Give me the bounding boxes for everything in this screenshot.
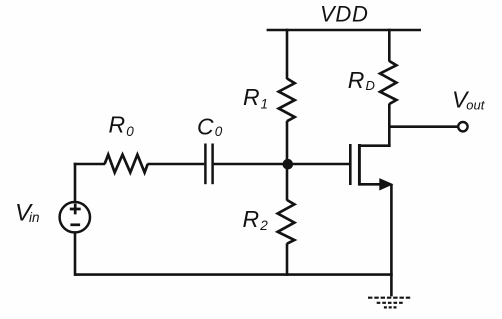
wire bottom rail bbox=[75, 273, 393, 276]
label Vin bbox=[15, 199, 40, 226]
wire source down to ground bbox=[390, 184, 393, 296]
wire Vout tap bbox=[389, 125, 458, 128]
ground bbox=[368, 298, 411, 308]
svg-text:VDD: VDD bbox=[320, 2, 369, 27]
resistor R0 bbox=[105, 155, 148, 173]
capacitor C0 bbox=[205, 144, 212, 185]
label Vout bbox=[452, 87, 486, 113]
transistor Q1 channel bar bbox=[358, 144, 361, 186]
wire VDD rail to RD bbox=[388, 29, 391, 62]
transistor Q1 gate bar bbox=[349, 144, 352, 185]
wire VDD rail bbox=[267, 29, 421, 32]
resistor RD bbox=[380, 61, 396, 104]
wire R2 to bottom rail bbox=[286, 243, 289, 276]
resistor R2 bbox=[278, 200, 295, 244]
svg-text:R: R bbox=[243, 84, 260, 110]
transistor Q1 source arrow bbox=[379, 178, 393, 190]
wire RD to drain bbox=[388, 104, 391, 147]
label C0 bbox=[197, 113, 223, 139]
label R2 bbox=[243, 206, 269, 233]
svg-text:C: C bbox=[197, 113, 214, 139]
label R0 bbox=[109, 112, 135, 139]
svg-text:out: out bbox=[466, 98, 485, 113]
svg-text:1: 1 bbox=[261, 97, 269, 112]
transistor Q1 source lead bbox=[359, 183, 381, 186]
wire node to R2 bbox=[286, 163, 289, 201]
wire left vertical top bbox=[74, 163, 77, 203]
wire left vertical bottom bbox=[74, 232, 77, 276]
wire drain horizontal bbox=[359, 144, 391, 147]
wire R1 to gate node bbox=[286, 121, 289, 165]
label RD bbox=[348, 67, 375, 93]
wire R0 to C0 bbox=[147, 163, 204, 166]
node gate bias junction bbox=[283, 159, 294, 170]
wire VDD rail to R1 bbox=[286, 29, 289, 79]
svg-text:R: R bbox=[243, 206, 260, 232]
svg-text:R: R bbox=[109, 112, 126, 138]
source Vin bbox=[60, 202, 90, 232]
svg-text:in: in bbox=[29, 210, 40, 225]
svg-text:0: 0 bbox=[126, 124, 134, 139]
wire input left segment bbox=[74, 163, 105, 166]
svg-text:R: R bbox=[348, 67, 365, 93]
svg-text:2: 2 bbox=[259, 218, 268, 233]
label R1 bbox=[243, 84, 268, 111]
resistor R1 bbox=[279, 79, 295, 122]
svg-text:0: 0 bbox=[215, 124, 223, 139]
svg-text:D: D bbox=[366, 78, 375, 93]
wire gate lead bbox=[214, 163, 350, 166]
terminal Vout bbox=[458, 122, 467, 131]
